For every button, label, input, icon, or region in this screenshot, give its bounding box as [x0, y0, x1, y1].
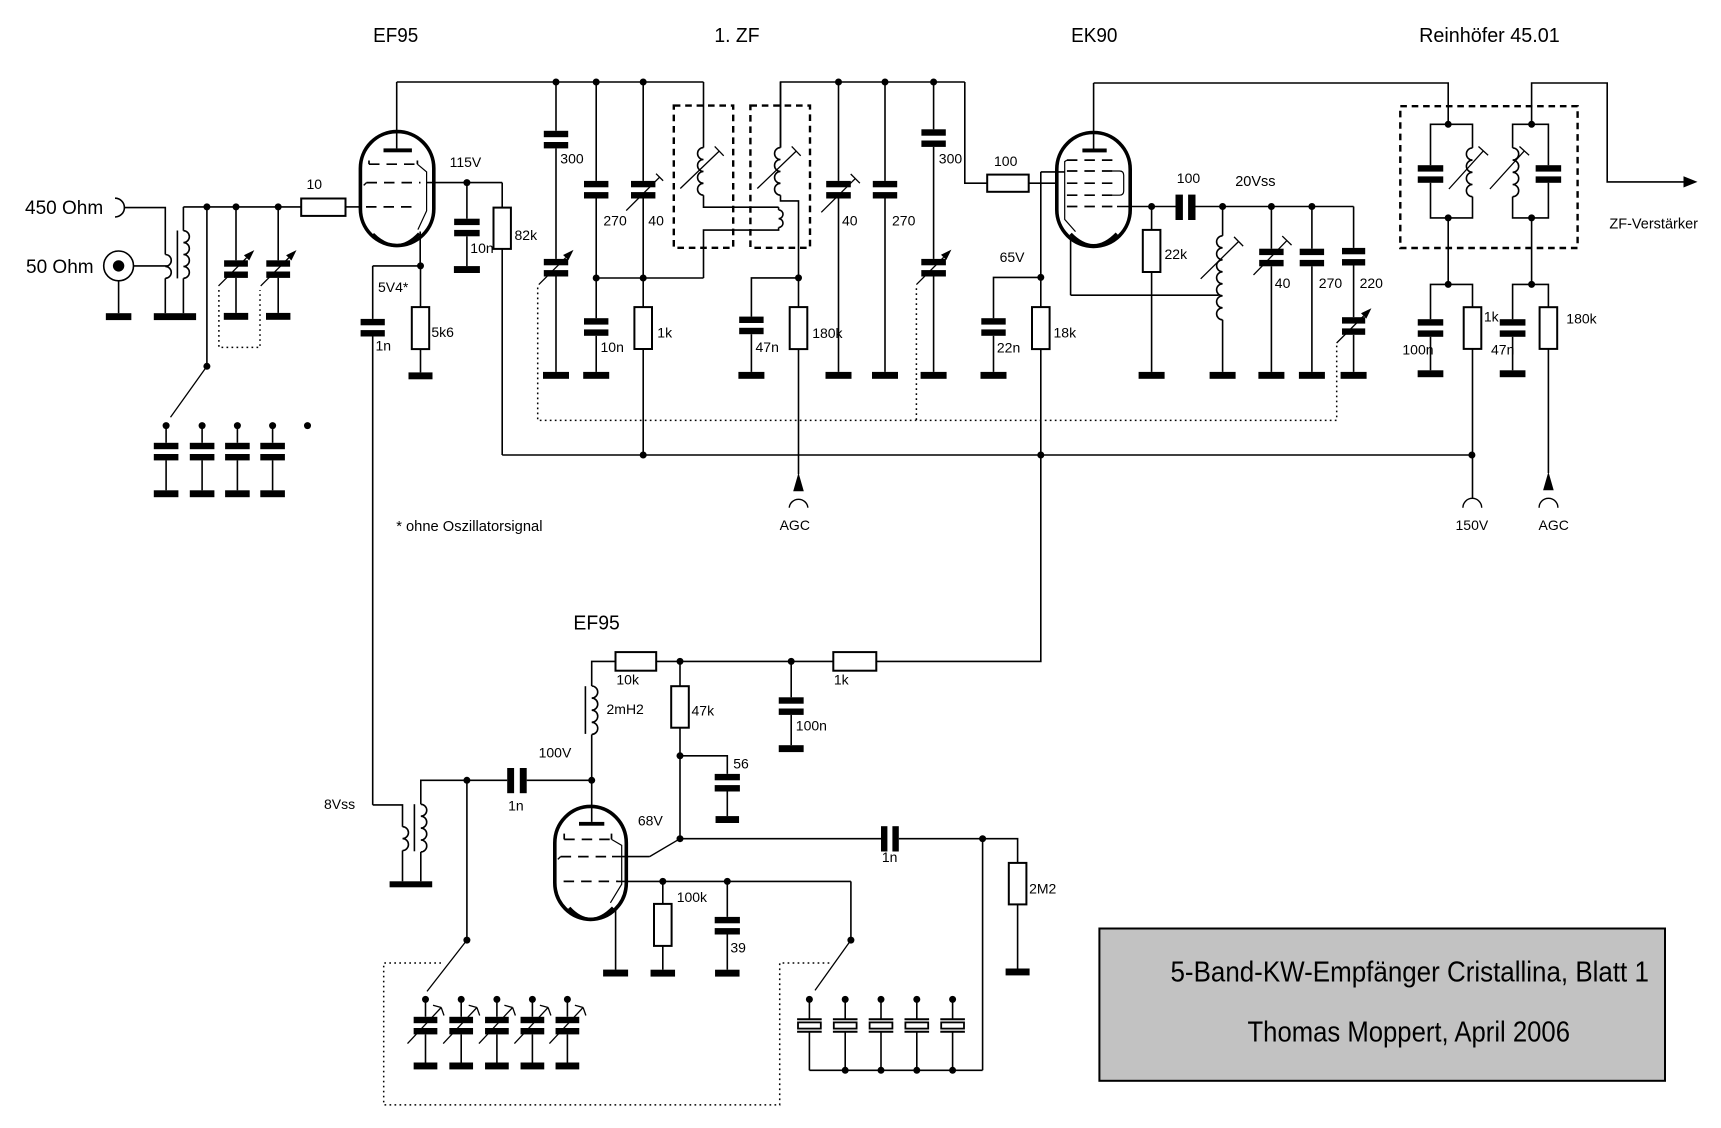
capacitor C8 47n	[739, 317, 763, 323]
svg-text:2M2: 2M2	[1029, 881, 1056, 897]
svg-text:450 Ohm: 450 Ohm	[25, 198, 103, 219]
wire junction up to L7	[591, 735, 593, 781]
svg-text:2mH2: 2mH2	[607, 701, 645, 717]
ground under C var B	[266, 313, 290, 320]
svg-text:1n: 1n	[882, 849, 898, 865]
resistor R10 180k	[1540, 307, 1558, 349]
svg-text:EF95: EF95	[573, 613, 619, 635]
wire padder bus riser	[982, 839, 984, 1071]
capacitor C1 1n	[372, 266, 374, 319]
svg-text:* ohne Oszillatorsignal: * ohne Oszillatorsignal	[396, 518, 542, 535]
tube V1 cathode node	[417, 262, 424, 269]
wire 50ohm to primary tap	[134, 265, 168, 267]
tank2 frame	[1513, 124, 1549, 165]
tube V3 cathode lead	[615, 909, 617, 970]
svg-text:EF95: EF95	[373, 25, 418, 47]
wire EK90 anode bus to tank1	[1094, 83, 1449, 124]
node junction riser / C26 line	[979, 835, 986, 842]
connector J1 450 Ohm	[115, 198, 124, 217]
inductor L4 oscillator coil	[1222, 207, 1224, 236]
svg-text:10k: 10k	[616, 672, 640, 688]
svg-text:10n: 10n	[601, 339, 624, 355]
node bus / C300	[553, 79, 560, 86]
ground under transformer T1	[154, 313, 196, 320]
wire T2 secondary to grid node	[421, 780, 467, 804]
wire 50ohm connector to ground	[118, 281, 120, 313]
ground under C14	[981, 372, 1007, 379]
svg-text:270: 270	[892, 212, 916, 228]
resistor R13 1k	[833, 652, 876, 671]
wire R1 to V1 grid	[346, 206, 361, 208]
capacitor C13 100 series	[1176, 195, 1183, 220]
wire bus 2 into L3	[780, 82, 782, 148]
variable capacitor C15 40	[1270, 207, 1272, 249]
node 65V junction	[1037, 274, 1044, 281]
wire coupling coil to grid line	[704, 228, 779, 279]
inductor L6 tank2 variable	[1513, 148, 1519, 197]
svg-text:68V: 68V	[638, 812, 664, 828]
node AGC bus / R4	[640, 452, 647, 459]
resistor R4 1k	[642, 278, 644, 307]
ground under 50 Ohm connector	[106, 313, 132, 320]
node junction C16 270	[1308, 203, 1315, 210]
inductor L5 tank1 variable	[1466, 148, 1472, 197]
ground under C24	[779, 745, 804, 752]
inductor L1 primary variable	[698, 148, 704, 196]
svg-text:EK90: EK90	[1071, 25, 1117, 47]
svg-text:1k: 1k	[1484, 309, 1500, 325]
wire cathode tap to L4	[1071, 294, 1219, 296]
inductor L3 secondary variable	[775, 148, 781, 196]
svg-text:1. ZF: 1. ZF	[714, 25, 759, 47]
variable capacitor C18 trimmer	[1342, 317, 1365, 323]
node switch S3 wiper	[463, 937, 470, 944]
wire R4 to AGC bus	[642, 349, 644, 455]
wire R10 to AGC connector	[1547, 349, 1549, 473]
inductor L2 coupling winding	[778, 207, 780, 210]
title block frame	[1099, 929, 1665, 1081]
variable capacitor C12 trimmer	[921, 259, 946, 265]
tube V1 cathode lead	[419, 232, 421, 266]
ground under T2	[390, 881, 433, 887]
svg-text:47n: 47n	[756, 339, 779, 355]
svg-text:100V: 100V	[539, 744, 572, 760]
wire V2 output g to C13	[1117, 206, 1176, 208]
wire 450ohm to transformer primary	[124, 208, 165, 255]
inductor L3 adjust arrow	[757, 151, 796, 188]
wire cathode node to C1	[373, 265, 421, 267]
capacitor C2 10n screen bypass	[466, 183, 468, 219]
ground under C4	[543, 372, 569, 379]
tube V2 anode	[1082, 149, 1106, 153]
tube V2 cathode lead	[1070, 240, 1072, 296]
wire C1 to oscillator 8Vss line	[372, 337, 374, 805]
svg-text:40: 40	[648, 212, 664, 228]
capacitor C21 tank2	[1536, 165, 1562, 171]
wire bus to band switch S1 wiper	[206, 207, 208, 366]
wire L7 to R11	[592, 661, 616, 686]
svg-text:1k: 1k	[834, 672, 850, 688]
variable capacitor bank oscillator tuning	[425, 999, 427, 1016]
ground under R14	[651, 970, 676, 977]
capacitor C17 220	[1353, 207, 1355, 248]
wire node to C23	[467, 779, 507, 781]
transformer T1 secondary winding	[182, 207, 184, 231]
capacitor bank input band caps	[165, 426, 167, 443]
node switch S1 wiper	[203, 363, 210, 370]
tank1 frame	[1431, 124, 1473, 165]
wire C26 to R15	[899, 838, 983, 840]
tube V3 EF95 envelope	[555, 806, 627, 919]
wire EK90 grid return stub	[1041, 171, 1065, 173]
resistor R9 1k	[1464, 307, 1482, 349]
variable capacitor C7 40	[642, 82, 644, 181]
wire tap to C25 56	[680, 756, 727, 774]
svg-text:Thomas Moppert, April 2006: Thomas Moppert, April 2006	[1248, 1017, 1571, 1049]
tube V2 EK90 envelope	[1057, 133, 1130, 247]
tube V1 grid g1 dashes	[366, 206, 417, 208]
gang link dotted tuning	[538, 288, 1337, 421]
transformer T1 core	[176, 231, 178, 279]
wire R13 to AGC bus riser	[876, 455, 1041, 661]
variable capacitor C var A	[235, 207, 237, 260]
inductor L4 adjust arrow	[1201, 242, 1239, 279]
node junction osc coil	[1219, 203, 1226, 210]
resistor R15 2M2	[1009, 863, 1027, 905]
wire L3 bottom to 180k node	[781, 195, 799, 278]
wire V2 anode up	[1093, 83, 1095, 149]
svg-text:100: 100	[994, 153, 1018, 169]
wire V3 g1 to switch S2	[618, 880, 851, 882]
svg-text:300: 300	[560, 151, 584, 167]
tube V1 grid g3 dashes	[368, 161, 370, 165]
capacitor bank padder caps	[808, 999, 810, 1019]
gang link dotted input variable caps	[219, 290, 260, 347]
svg-text:65V: 65V	[1000, 249, 1026, 265]
wire junction down to V3 top electrode	[591, 780, 593, 822]
node junction input bus / C var B	[275, 203, 282, 210]
ground under C20	[1418, 370, 1444, 377]
node junction input bus / C var A	[233, 203, 240, 210]
svg-text:150V: 150V	[1456, 517, 1489, 533]
wire R2 to AGC bus	[501, 249, 503, 455]
wire R6 to EK90 g3	[1029, 182, 1057, 184]
node AGC bus / 18k	[1037, 452, 1044, 459]
tube V2 g1 bracket	[1065, 160, 1076, 232]
svg-text:270: 270	[603, 212, 627, 228]
capacitor C3 300	[555, 82, 557, 131]
svg-text:40: 40	[1275, 275, 1291, 291]
svg-text:82k: 82k	[515, 227, 539, 243]
svg-text:10: 10	[307, 176, 323, 192]
wire input bus	[183, 206, 301, 208]
capacitor C24 100n	[790, 661, 792, 697]
wire V1 screen to 115V node	[427, 182, 502, 184]
connector J2 50 Ohm	[104, 251, 134, 281]
svg-text:8Vss: 8Vss	[324, 796, 355, 812]
wire 8Vss line corner	[373, 805, 403, 827]
node tank1 top	[1445, 121, 1452, 128]
node junction V3 top	[588, 777, 595, 784]
node junction R14 100k	[659, 878, 666, 885]
wire V1 anode to B+ bus	[397, 81, 704, 83]
resistor R3 5k6 cathode	[420, 266, 422, 307]
svg-text:18k: 18k	[1054, 324, 1078, 340]
node tank2 top	[1528, 121, 1535, 128]
IF can L1 dashed box	[674, 106, 733, 248]
svg-text:100n: 100n	[1402, 341, 1433, 357]
capacitor C25 56	[715, 774, 740, 780]
wire R9 to 150V connector	[1472, 349, 1474, 498]
node junction 56 tap	[677, 752, 684, 759]
ground under C12	[921, 372, 947, 379]
connector 150V	[1463, 498, 1482, 507]
AGC input arrow left	[793, 473, 804, 492]
svg-text:5V4*: 5V4*	[378, 279, 409, 295]
node junction C27 39	[724, 878, 731, 885]
svg-text:220: 220	[1360, 275, 1384, 291]
wire bus into L1	[703, 82, 705, 148]
node junction R12 47k	[677, 658, 684, 665]
svg-text:5k6: 5k6	[431, 324, 454, 340]
tube V1 anode	[384, 148, 412, 152]
svg-text:10n: 10n	[470, 240, 493, 256]
wire L3 top bus	[781, 82, 965, 148]
ground under C22	[1500, 370, 1526, 377]
node junction 47n/180k	[1528, 281, 1535, 288]
tube V3 base dome	[569, 908, 613, 920]
resistor R2 82k	[501, 183, 503, 208]
wire g1 line to S2 wiper	[850, 881, 852, 940]
tube V1 base dome	[373, 234, 419, 246]
node switch S2 wiper	[847, 937, 854, 944]
svg-text:5-Band-KW-Empfänger Cristallin: 5-Band-KW-Empfänger Cristallina, Blatt 1	[1171, 957, 1649, 989]
ground under R7	[1139, 372, 1165, 379]
inductor L1 adjust arrow	[680, 151, 719, 188]
node junction C24 100n	[788, 658, 795, 665]
node junction C15 40	[1268, 203, 1275, 210]
variable capacitor C9 40	[838, 82, 840, 181]
node junction input bus / switch wiper	[203, 203, 210, 210]
tube V1 cathode internal	[417, 164, 426, 229]
resistor R11 10k	[616, 652, 657, 671]
wire bus2 corner to R6	[965, 82, 987, 183]
wire grid stub down to 65V node	[1040, 172, 1042, 455]
wire tank1 bottom down	[1447, 218, 1449, 285]
tube V3 grid g2 dashes	[558, 857, 561, 860]
ground under C8	[738, 372, 764, 379]
ground under C25	[716, 816, 740, 823]
svg-text:22k: 22k	[1165, 246, 1189, 262]
inductor L7 2mH2 choke	[592, 686, 598, 734]
switch S2 contacts	[806, 996, 813, 1003]
ground under C15	[1258, 372, 1284, 379]
wire C3 to trimmer	[555, 148, 557, 259]
wire R12 down	[679, 728, 681, 839]
tank2 feed and output	[1532, 83, 1684, 182]
svg-text:AGC: AGC	[1539, 517, 1569, 533]
switch S1 contacts	[163, 422, 170, 429]
ground under R15	[1006, 969, 1030, 976]
ground under V3 cathode	[603, 970, 628, 977]
switch S1 blade	[171, 366, 207, 417]
capacitor C14 22n	[981, 318, 1005, 324]
variable capacitor C4 trimmer	[544, 259, 568, 265]
ground under C27	[715, 970, 740, 977]
capacitor C27 39	[726, 881, 728, 917]
wire node to 47n	[751, 278, 798, 317]
wire V3 g2 to feedback node	[612, 856, 650, 858]
wire R5 to AGC connector	[798, 349, 800, 474]
svg-text:20Vss: 20Vss	[1235, 173, 1275, 190]
node bus2 / C300b	[930, 79, 937, 86]
wire C23 to V3	[527, 779, 592, 781]
svg-text:40: 40	[842, 212, 858, 228]
node junction 180k/47n	[795, 274, 802, 281]
IF can L3 dashed box	[750, 106, 810, 248]
gang link dotted oscillator bank	[384, 963, 830, 1105]
svg-text:100k: 100k	[677, 889, 708, 905]
capacitor C20 100n	[1418, 319, 1444, 325]
resistor R1 10	[301, 199, 345, 216]
ground under C2	[454, 266, 480, 273]
capacitor C6 10n	[595, 278, 597, 318]
wire 65V node to 22n	[994, 277, 1041, 318]
wire L1 bottom to coupling coil	[704, 195, 779, 207]
tube V3 grid g3 dashes	[563, 834, 565, 840]
Reinhoefer dashed box	[1400, 106, 1577, 248]
node junction grid/switch	[463, 777, 470, 784]
capacitor C10 270	[884, 82, 886, 181]
svg-text:56: 56	[733, 756, 749, 772]
wire R11 to R12 node	[656, 660, 833, 662]
svg-text:1k: 1k	[657, 324, 673, 340]
wire padder common bus	[809, 1069, 982, 1071]
svg-text:100: 100	[1177, 170, 1201, 186]
ground under C var A	[224, 313, 248, 320]
tube V2 base dome	[1071, 234, 1117, 246]
capacitor C19 tank1	[1418, 165, 1444, 171]
node junction C5 / grid line	[593, 275, 600, 282]
AGC input arrow right	[1543, 472, 1554, 491]
capacitor C5 270	[595, 82, 597, 181]
tube V1 grid g2 dashes	[364, 183, 367, 186]
wire tank2 bottom down	[1531, 218, 1533, 285]
switch S2 blade	[815, 940, 851, 990]
svg-text:1n: 1n	[508, 798, 524, 814]
wire C13 to osc tank	[1196, 206, 1354, 208]
tube V3 top electrode	[579, 822, 604, 826]
tube V3 grid g1 dashes	[564, 880, 618, 882]
capacitor C11 300	[933, 82, 935, 129]
wire grid line y278	[596, 277, 703, 279]
capacitor C26 1n series	[881, 826, 887, 851]
ground under C10	[872, 372, 898, 379]
transformer T2 primary	[403, 827, 409, 851]
capacitor C22 47n	[1500, 319, 1526, 325]
node AGC bus / 150V	[1468, 452, 1475, 459]
node junction 22k	[1148, 203, 1155, 210]
svg-text:50 Ohm: 50 Ohm	[26, 257, 94, 278]
resistor R12 47k	[679, 661, 681, 686]
transformer T2 secondary	[421, 804, 427, 852]
resistor R6 100 grid stopper	[987, 175, 1028, 192]
capacitor C16 270	[1311, 207, 1313, 249]
resistor R5 180k	[798, 278, 800, 307]
ground under L4	[1210, 372, 1236, 379]
resistor R7 22k	[1151, 207, 1153, 230]
switch S3 contacts	[422, 996, 429, 1003]
ground under C16	[1299, 372, 1325, 379]
node junction feedback	[677, 835, 684, 842]
ground under C6	[583, 372, 609, 379]
tube V2 grid rows	[1067, 159, 1118, 161]
transformer T2 core	[413, 804, 415, 851]
node 115V junction	[463, 179, 470, 186]
ground under C18	[1341, 372, 1367, 379]
svg-text:1n: 1n	[376, 338, 392, 354]
node junction 100n/1k	[1445, 281, 1452, 288]
capacitor C23 1n series	[507, 768, 514, 793]
svg-text:22n: 22n	[997, 340, 1020, 356]
wire node to 47n and 180k	[1513, 284, 1549, 319]
node bus / C40	[640, 79, 647, 86]
wire AGC bus	[502, 454, 1472, 456]
tube V1 EF95 envelope	[360, 132, 433, 246]
svg-text:39: 39	[730, 940, 746, 956]
ground under R3	[409, 372, 433, 379]
svg-text:100n: 100n	[796, 718, 827, 734]
svg-text:AGC: AGC	[780, 517, 810, 533]
tube V2 g2-g4 bracket	[1113, 171, 1124, 195]
svg-text:270: 270	[1319, 275, 1343, 291]
node tank2 bottom	[1528, 214, 1535, 221]
wire node to 100n and 1k	[1431, 284, 1473, 319]
wire V3 grid line to S3 wiper	[466, 780, 468, 940]
output arrow ZF-Verstaerker	[1684, 176, 1698, 187]
node bus2 / C270b	[882, 79, 889, 86]
svg-text:47n: 47n	[1491, 341, 1514, 357]
node junction C7 / grid line	[640, 275, 647, 282]
wire feedback line to C26	[680, 838, 881, 840]
svg-text:115V: 115V	[450, 154, 482, 170]
svg-text:47k: 47k	[692, 703, 716, 719]
variable capacitor C var B	[277, 207, 279, 260]
tube V3 cathode internal	[610, 839, 621, 902]
ground under C9	[826, 372, 852, 379]
node bus / C270	[593, 79, 600, 86]
resistor R8 18k	[1032, 307, 1050, 349]
svg-text:Reinhöfer 45.01: Reinhöfer 45.01	[1419, 25, 1560, 47]
inductor L7 core bar	[584, 686, 586, 734]
switch S3 blade	[427, 940, 467, 991]
svg-text:300: 300	[939, 151, 963, 167]
node bus2 / C40b	[835, 79, 842, 86]
svg-text:180k: 180k	[1566, 310, 1597, 326]
node tank1 bottom	[1445, 214, 1452, 221]
transformer T1 primary winding	[165, 255, 171, 279]
svg-text:ZF-Verstärker: ZF-Verstärker	[1609, 215, 1698, 232]
resistor R14 100k	[662, 881, 664, 904]
